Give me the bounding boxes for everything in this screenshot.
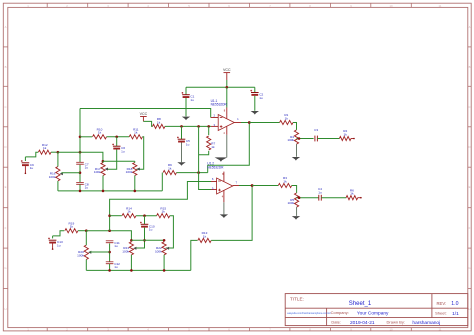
- wire C5 top lead: [181, 126, 183, 139]
- wire R1 to R4: [293, 123, 297, 130]
- wire C13 step: [52, 236, 54, 239]
- svg-text:100k: 100k: [122, 249, 129, 253]
- svg-text:VCC: VCC: [223, 68, 231, 72]
- wire A2 to R14: [110, 215, 122, 217]
- svg-text:C3: C3: [314, 128, 318, 132]
- junction C11/C12 mid: [108, 251, 111, 254]
- wire R15 to R22 wiper: [166, 216, 174, 248]
- svg-text:NE5532DR: NE5532DR: [207, 165, 224, 169]
- wire top rail C1-C2: [186, 86, 255, 88]
- wire U1.2 feedback: [211, 186, 252, 241]
- wire R19 to node: [78, 230, 86, 232]
- wire C6 to R17 wiper: [106, 150, 117, 170]
- svg-text:1u: 1u: [259, 96, 263, 100]
- wire C2 bottom lead: [254, 96, 256, 111]
- wire C9 to R12 step1: [24, 157, 26, 161]
- wire R11 to R18 wiper: [136, 137, 143, 169]
- svg-text:100k: 100k: [287, 201, 294, 205]
- resistor R20: [84, 245, 88, 259]
- wire C13 to R19: [53, 231, 65, 236]
- U1.1 pin 2 lead: [211, 117, 219, 119]
- svg-text:10: 10: [389, 328, 393, 332]
- svg-text:11: 11: [439, 4, 442, 8]
- wire to R20 wiper: [90, 251, 110, 253]
- junction VCC rail: [226, 86, 229, 89]
- svg-text:1u: 1u: [85, 186, 89, 190]
- svg-text:Drawn By:: Drawn By:: [387, 320, 405, 325]
- junction R21 rail: [130, 269, 133, 272]
- ground (R4): [292, 157, 300, 161]
- svg-text:1k: 1k: [350, 192, 354, 196]
- resistor R5: [295, 193, 299, 207]
- svg-text:H: H: [4, 307, 6, 311]
- wire C2 top lead: [254, 87, 256, 92]
- C9 bottom pin stub: [24, 166, 26, 173]
- wire rail up to R9: [161, 173, 163, 191]
- wire VCC2 to R8: [143, 121, 152, 126]
- resistor R16: [56, 167, 60, 181]
- svg-text:U1.1: U1.1: [211, 99, 218, 103]
- svg-text:2019-04-21: 2019-04-21: [350, 320, 375, 326]
- wire U1.1 out: [241, 122, 249, 124]
- wire R10-R11: [107, 136, 130, 138]
- svg-text:F: F: [469, 226, 471, 230]
- svg-text:D: D: [4, 145, 6, 149]
- svg-text:1k: 1k: [134, 131, 138, 135]
- title block: [285, 294, 468, 326]
- resistor R15: [157, 214, 170, 218]
- svg-text:E: E: [469, 185, 471, 189]
- wire R17 bottom lead: [102, 176, 104, 191]
- svg-text:Company:: Company:: [331, 310, 349, 315]
- svg-text:11: 11: [439, 328, 442, 332]
- svg-text:1k: 1k: [43, 146, 47, 150]
- resistor R17: [101, 163, 105, 176]
- wire R9 to feedback corner: [177, 172, 208, 174]
- wire U1.2 pin 6 long feed: [110, 182, 211, 231]
- op-amp U1.1 NE5532DR: [218, 115, 234, 131]
- svg-text:1k: 1k: [203, 234, 207, 238]
- VCC2 stub: [142, 117, 144, 122]
- capacitor C2 (polarized): [250, 90, 252, 92]
- ground (U1.1 pin 4): [215, 157, 228, 161]
- wire output to R1: [249, 122, 279, 124]
- U1.2 pin 5 lead: [211, 189, 217, 191]
- wire R21-R22 tops: [131, 239, 164, 241]
- svg-text:1u: 1u: [30, 166, 34, 170]
- ground (U1.2 pin 4): [220, 214, 228, 218]
- wire R17 top: [102, 161, 104, 162]
- junction node A: [79, 136, 82, 139]
- wire R18 top: [134, 161, 136, 162]
- svg-text:F: F: [5, 226, 7, 230]
- C13 bottom pin stub: [52, 244, 54, 249]
- wire R16 bottom lead: [57, 181, 59, 191]
- capacitor C11: [106, 240, 114, 242]
- svg-text:1k: 1k: [127, 210, 131, 214]
- wire R14-R15: [136, 215, 157, 217]
- resistor R14: [122, 214, 136, 218]
- capacitor C13 (polarized): [48, 237, 50, 239]
- svg-text:harshamanoj: harshamanoj: [412, 320, 440, 326]
- wire bottom network rail: [86, 269, 191, 271]
- resistor R2: [339, 136, 351, 140]
- capacitor C10 (polarized): [140, 222, 142, 224]
- junction R7 top: [207, 125, 210, 128]
- svg-text:1u: 1u: [149, 228, 153, 232]
- svg-text:100k: 100k: [49, 175, 56, 179]
- R2 output pin stub: [351, 138, 354, 140]
- wire B to C6: [116, 137, 118, 146]
- wire A to R10: [80, 136, 92, 138]
- capacitor C5 (polarized): [177, 136, 179, 138]
- svg-text:A: A: [5, 25, 7, 29]
- svg-text:U1.2: U1.2: [207, 162, 214, 166]
- capacitor C9 (polarized): [21, 160, 23, 162]
- wire R16 top lead: [57, 152, 59, 166]
- svg-text:1u: 1u: [114, 265, 118, 269]
- resistor R4: [294, 130, 298, 144]
- svg-text:G: G: [468, 266, 470, 270]
- svg-text:1k: 1k: [168, 167, 172, 171]
- junction R18 rail: [134, 190, 137, 193]
- junction C11 column: [108, 229, 111, 232]
- wire R18 bottom lead: [134, 176, 136, 191]
- wire U1.1 feedback: [208, 123, 250, 173]
- U1.1 pin 4 lead: [226, 127, 228, 135]
- capacitor C6 (polarized): [112, 143, 114, 145]
- wire VCC to rail: [226, 80, 228, 87]
- wire C3 to R2: [317, 138, 339, 140]
- resistor R18: [133, 163, 137, 176]
- U1.1 pin 8 lead: [226, 108, 228, 119]
- wire top network bottom rail: [58, 190, 162, 192]
- svg-text:VCC: VCC: [140, 112, 148, 116]
- border column/row tick marks and labels: [46, 3, 48, 7]
- svg-text:100k: 100k: [77, 253, 84, 257]
- junction R17 rail: [102, 190, 105, 193]
- svg-text:Date:: Date:: [331, 320, 341, 325]
- junction R19/R20: [85, 229, 88, 232]
- svg-text:G: G: [4, 266, 6, 270]
- capacitor C12: [106, 261, 114, 263]
- U1.2 pin 6 lead: [211, 181, 217, 183]
- junction C12 rail: [108, 269, 111, 272]
- svg-text:100k: 100k: [155, 249, 162, 253]
- junction R17 top: [102, 160, 105, 163]
- svg-text:E: E: [5, 185, 7, 189]
- U1.1 pin 1 lead: [234, 122, 241, 124]
- capacitor C7: [76, 161, 84, 163]
- svg-text:1u: 1u: [121, 150, 125, 154]
- svg-text:1u: 1u: [85, 166, 89, 170]
- junction R4/C3: [298, 137, 301, 140]
- wire R7 bottom to V1: [199, 151, 209, 155]
- resistor R19: [65, 229, 78, 233]
- capacitor C1 (polarized): [182, 92, 184, 94]
- svg-text:B: B: [5, 65, 7, 69]
- svg-text:1k: 1k: [70, 225, 74, 229]
- svg-text:1u: 1u: [190, 98, 194, 102]
- junction node B2 (C10 tap): [143, 214, 146, 217]
- resistor R8: [153, 124, 165, 128]
- svg-text:1k: 1k: [98, 131, 102, 135]
- wire R3 to R5: [292, 186, 297, 193]
- U1.2 pin 4 lead: [223, 190, 225, 202]
- junction U1.2 output: [251, 184, 254, 187]
- svg-text:1u: 1u: [114, 244, 118, 248]
- junction C8 rail: [79, 190, 82, 193]
- ground (C1): [182, 117, 190, 121]
- VCC stub: [226, 73, 228, 80]
- wire C1 bottom lead: [185, 98, 187, 116]
- svg-text:1k: 1k: [283, 179, 287, 183]
- svg-text:Sheet_1: Sheet_1: [349, 301, 372, 307]
- svg-text:Sheet:: Sheet:: [435, 311, 447, 316]
- svg-text:A: A: [469, 25, 471, 29]
- svg-text:1/1: 1/1: [452, 311, 459, 317]
- resistor R13: [198, 238, 211, 242]
- svg-text:D: D: [468, 145, 470, 149]
- junction R22 top: [163, 239, 166, 242]
- junction C10/R21-R22 wire: [143, 239, 146, 242]
- ground (C5): [177, 162, 185, 166]
- wire B2 to C10: [144, 216, 146, 225]
- U1.2 pin 8 lead: [223, 172, 225, 182]
- wire C10 down to R21 wiper: [136, 228, 145, 248]
- wire R21 bottom lead: [130, 255, 132, 271]
- svg-text:1k: 1k: [157, 120, 161, 124]
- svg-text:easyeda.com/harshamanoj/tone-c: easyeda.com/harshamanoj/tone-control: [287, 312, 331, 315]
- resistor R1: [280, 120, 293, 124]
- svg-text:C: C: [468, 105, 470, 109]
- svg-text:1k: 1k: [162, 210, 166, 214]
- junction U1.1 output: [248, 121, 251, 124]
- resistor R22: [162, 242, 166, 255]
- wire C12 bottom lead: [109, 264, 111, 271]
- junction R12/R16: [57, 151, 60, 154]
- junction R5/C4: [298, 196, 301, 199]
- svg-text:1k: 1k: [344, 132, 348, 136]
- svg-text:Your Company: Your Company: [357, 311, 389, 317]
- resistor R11: [129, 135, 142, 139]
- svg-text:TITLE:: TITLE:: [290, 297, 304, 302]
- U1.1 pin 3 lead: [211, 125, 218, 127]
- wire U1.1 pin 2 long feed: [80, 109, 211, 118]
- wire R5 to C4: [297, 197, 319, 199]
- resistor R10: [93, 135, 107, 139]
- wire R4 to C3: [297, 138, 314, 140]
- wire C11-C12 middle: [109, 243, 111, 261]
- ground (C2): [251, 111, 259, 115]
- svg-text:100k: 100k: [126, 170, 133, 174]
- svg-text:10: 10: [389, 4, 393, 8]
- resistor R7: [207, 136, 211, 150]
- resistor R6: [346, 196, 358, 200]
- junction C5 tap: [180, 125, 183, 128]
- capacitor C4: [318, 195, 320, 201]
- U1.2 pin 7 lead: [233, 185, 239, 187]
- wire A-column (pin2 net down to C7): [79, 109, 81, 163]
- wire R7 top lead: [208, 126, 210, 135]
- wire C1 top lead: [185, 87, 187, 94]
- wire rail to U1.1 pin 8: [226, 87, 228, 107]
- resistor R12: [38, 150, 51, 154]
- svg-text:C: C: [4, 105, 6, 109]
- junction R22 rail: [163, 269, 166, 272]
- wire C8 bottom lead: [79, 185, 81, 191]
- svg-text:1u: 1u: [57, 244, 61, 248]
- wire R12 to node: [51, 151, 58, 153]
- wire output to R3: [252, 185, 278, 187]
- svg-text:1.0: 1.0: [451, 301, 458, 307]
- svg-text:1k: 1k: [211, 145, 215, 149]
- wire U1.2 out: [239, 185, 252, 187]
- junction V1 top: [197, 125, 200, 128]
- junction R21 top: [130, 239, 133, 242]
- capacitor C3: [314, 136, 316, 142]
- junction node B (C6 tap): [115, 136, 118, 139]
- junction C7/C8 mid: [79, 171, 82, 174]
- svg-text:100k: 100k: [287, 138, 294, 142]
- wire rail to R13: [191, 240, 198, 270]
- wire node to R21 top: [86, 231, 131, 241]
- capacitor C8: [76, 181, 84, 183]
- svg-text:1u: 1u: [318, 190, 322, 194]
- resistor R21: [129, 242, 133, 255]
- wire node to R17 top: [58, 152, 103, 161]
- wire R22 bottom lead: [163, 255, 165, 271]
- svg-text:REV:: REV:: [437, 301, 447, 306]
- wire C7-C8 middle: [79, 165, 81, 182]
- svg-text:100k: 100k: [94, 170, 101, 174]
- wire R20 bottom lead: [85, 260, 87, 271]
- svg-text:1k: 1k: [285, 116, 289, 120]
- wire R17-R18 tops: [103, 160, 135, 162]
- svg-text:1u: 1u: [186, 143, 190, 147]
- svg-text:B: B: [469, 65, 471, 69]
- junction node A2: [108, 214, 111, 217]
- resistor R9: [163, 171, 176, 175]
- wire C4 to R6: [321, 197, 346, 199]
- wire R8 to U1.1 pin 3: [165, 125, 211, 127]
- wire C9 to R12: [25, 152, 38, 157]
- wire to R16 wiper: [61, 172, 80, 174]
- svg-text:H: H: [468, 307, 470, 311]
- wire V1 pin3-to-pin5: [199, 126, 211, 189]
- resistor R3: [278, 183, 291, 187]
- R6 output pin stub: [358, 197, 361, 199]
- ground (R5): [292, 216, 300, 220]
- svg-text:NE5532DR: NE5532DR: [211, 103, 228, 107]
- wire R20 top lead: [85, 231, 87, 245]
- op-amp U1.2 NE5532DR: [217, 178, 233, 194]
- junction R9/V1: [197, 171, 200, 174]
- junction C7 column: [79, 151, 82, 154]
